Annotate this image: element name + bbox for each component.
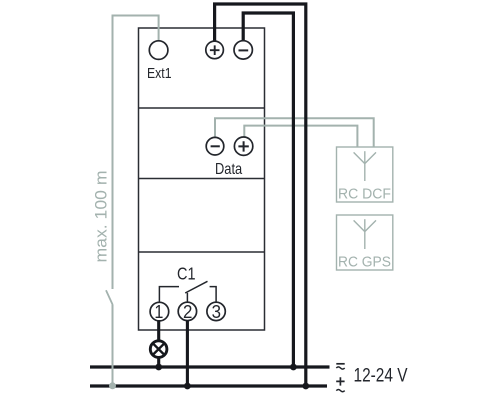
contact lead 2 with blade <box>186 293 188 302</box>
relay contact C1 <box>159 281 216 302</box>
contact lead 1 <box>159 287 179 303</box>
symbol DC/AC lower (plus over tilde) <box>336 377 345 392</box>
section divider <box>139 107 265 109</box>
terminal 2 <box>178 302 196 320</box>
antenna symbol (GPS) <box>364 219 366 249</box>
svg-text:C1: C1 <box>177 263 196 283</box>
terminal Ext1 <box>149 41 168 60</box>
supply rail lower (+) <box>90 384 327 387</box>
RC DCF receiver box <box>337 147 393 202</box>
wire: gray Ext1 line to external switch (max. 100 m) <box>113 16 159 290</box>
RC GPS receiver box <box>337 215 393 270</box>
wire: terminal 2 to lower rail <box>186 321 189 386</box>
wire: black + supply feed <box>215 4 306 386</box>
antenna symbol (DCF) <box>364 151 366 181</box>
junction on lower supply rail (gray, Ext1 return) <box>109 382 116 389</box>
svg-text:max. 100 m: max. 100 m <box>93 171 111 263</box>
supply rail upper (-) <box>90 365 330 368</box>
symbol DC/AC upper (minus over tilde) <box>336 364 344 369</box>
svg-text:2: 2 <box>183 302 192 322</box>
wire: gray Data plus to RC DCF <box>244 126 357 147</box>
terminal Data - <box>206 137 224 155</box>
junction on lower rail <box>302 383 309 390</box>
device box (master clock) <box>139 28 265 330</box>
section divider <box>139 178 265 180</box>
wire: gray Ext1 return over rails <box>112 305 114 386</box>
contact lead 3 <box>210 287 217 303</box>
section divider <box>139 251 265 253</box>
svg-text:12-24 V: 12-24 V <box>354 366 408 387</box>
switch S (external contact on gray line) <box>106 290 113 304</box>
wire: lamp to upper rail <box>157 358 160 367</box>
svg-text:RC GPS: RC GPS <box>338 255 391 271</box>
junction on lower rail <box>184 383 191 390</box>
terminal Data + <box>234 137 252 155</box>
wire: black - supply feed <box>243 13 293 367</box>
terminal 3 <box>207 302 225 320</box>
terminal 1 <box>150 302 169 321</box>
svg-text:RC DCF: RC DCF <box>338 187 391 203</box>
lamp E1 <box>150 341 167 358</box>
svg-text:Data: Data <box>215 161 242 178</box>
wire: gray Data minus to RC DCF <box>215 118 374 146</box>
junction on upper rail <box>155 364 162 371</box>
wire: terminal 1 to lamp <box>157 321 160 341</box>
junction on upper rail <box>290 364 297 371</box>
svg-text:1: 1 <box>154 302 163 322</box>
terminal + (supply) <box>206 41 224 59</box>
svg-text:Ext1: Ext1 <box>147 65 172 82</box>
svg-text:3: 3 <box>212 302 221 322</box>
terminal - (supply) <box>234 41 252 59</box>
